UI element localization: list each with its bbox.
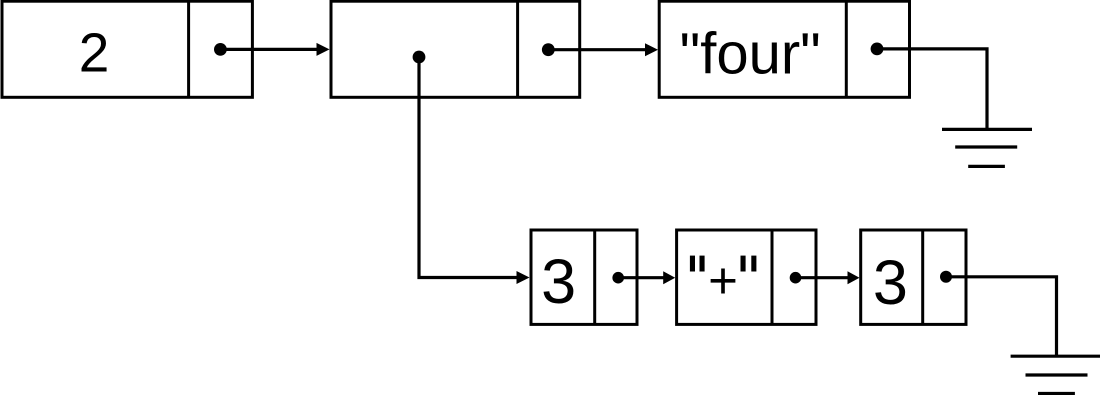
svg-text:3: 3 bbox=[541, 247, 576, 317]
wire cell6 to ground bbox=[946, 277, 1057, 356]
cons cell 3 box bbox=[659, 1, 909, 97]
cons cell 1 box bbox=[2, 1, 252, 97]
cdr dot of cell 4 bbox=[612, 272, 624, 284]
wire cell3 to ground bbox=[877, 49, 987, 129]
ground nil terminator top bbox=[942, 129, 1032, 166]
car dot of cell 2 bbox=[413, 51, 426, 64]
wire arrow cell2 to cell3 bbox=[548, 48, 646, 51]
cons cell 4 box bbox=[531, 230, 637, 324]
wire arrow cell1 to cell2 bbox=[220, 48, 318, 51]
wire cell2 car down to cell4 bbox=[419, 57, 518, 278]
ground nil terminator bottom bbox=[1011, 356, 1100, 393]
cdr dot of cell 3 bbox=[871, 43, 884, 56]
svg-text:"four": "four" bbox=[680, 22, 821, 87]
cdr dot of cell 5 bbox=[790, 272, 802, 284]
wire arrow cell4 to cell5 bbox=[618, 276, 664, 279]
cdr dot of cell 1 bbox=[214, 43, 227, 56]
wire arrow cell5 to cell6 bbox=[796, 276, 849, 279]
cons cell 2 box bbox=[331, 1, 580, 97]
cdr dot of cell 6 bbox=[940, 271, 952, 283]
svg-text:2: 2 bbox=[79, 22, 110, 84]
svg-text:+: + bbox=[708, 252, 738, 309]
cons cell 6 box bbox=[861, 230, 966, 324]
svg-text:3: 3 bbox=[873, 248, 908, 318]
cons cell 5 box bbox=[677, 230, 816, 324]
cdr dot of cell 2 bbox=[542, 43, 555, 56]
